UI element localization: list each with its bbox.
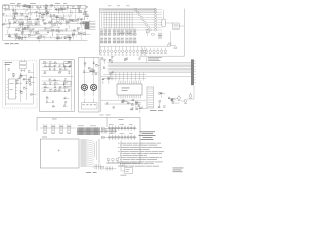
IC U21 <box>64 68 68 70</box>
capacitor C77 input <box>102 136 105 138</box>
IC U4 <box>77 18 79 24</box>
capacitor C69 <box>168 97 170 99</box>
resistor R50 <box>68 37 71 39</box>
IC U23 <box>54 89 58 91</box>
capacitor C61 <box>111 61 113 63</box>
resistor R30 <box>44 22 47 24</box>
transistor Q35 segment buffer <box>154 24 162 26</box>
wire G band tail <box>101 129 118 134</box>
resistor R37 <box>53 23 56 25</box>
capacitor C49 <box>49 83 51 85</box>
option board dashed outline <box>3 61 37 108</box>
resistor R89 <box>90 70 93 72</box>
text G labels <box>52 115 111 120</box>
diode CR7 <box>32 28 34 33</box>
IC U3 <box>46 11 48 16</box>
diode CR40 cluster <box>168 43 177 49</box>
IC U10 <box>28 34 35 36</box>
text B title <box>120 32 132 35</box>
resistor R88 <box>84 62 87 67</box>
resistor R67 <box>29 76 36 78</box>
capacitor C7 <box>45 7 47 9</box>
transistor Q29 segment buffer <box>154 16 162 18</box>
transistor Q9 digit driver <box>100 46 102 55</box>
resistor R104 <box>121 101 124 103</box>
capacitor C42 <box>18 77 20 79</box>
transistor Q1 <box>78 8 80 13</box>
resistor R105 <box>158 100 161 107</box>
capacitor C1 <box>67 6 69 11</box>
resistor R41 <box>59 22 62 24</box>
diode CR12 <box>79 32 81 34</box>
capacitor C14 <box>85 11 87 13</box>
resistor R15 <box>70 19 76 21</box>
resistor R46 <box>15 33 18 35</box>
diode CR13 <box>28 71 33 73</box>
IC U30 regulator <box>7 79 17 99</box>
resistor network R58 <box>117 29 120 36</box>
capacitor C68 <box>171 99 173 104</box>
IC U12 <box>16 36 18 38</box>
resistor R9 <box>54 8 60 10</box>
capacitor C66 <box>136 102 139 104</box>
resistor R18 <box>60 17 67 19</box>
transistor Q60 group <box>141 48 166 54</box>
transistor Q37 segment buffer <box>154 26 162 28</box>
text F caption <box>150 109 163 112</box>
transistor Q4 <box>65 21 67 26</box>
resistor R63 <box>16 82 22 84</box>
resistor network R61 <box>130 29 133 36</box>
resistor R16 <box>49 14 55 16</box>
capacitor C59 <box>93 62 95 64</box>
transistor Q71 <box>181 100 187 104</box>
capacitor C71 <box>172 102 179 104</box>
IC U24 <box>46 97 48 99</box>
resistor R81 <box>58 86 61 88</box>
capacitor C44 <box>8 69 10 71</box>
diode CR1 <box>86 6 88 8</box>
diode CR21 <box>109 59 112 61</box>
filter stage rows upper <box>42 64 71 71</box>
edge connector P3 <box>191 59 196 85</box>
resistor network R60 <box>126 29 129 36</box>
wire toroid leads <box>84 80 93 97</box>
transistor Q32 segment driver <box>103 21 154 23</box>
capacitor C33 <box>108 37 111 43</box>
resistor network R57 <box>113 29 116 36</box>
resistor R75 <box>68 65 71 67</box>
transistor Q70 <box>178 95 181 100</box>
capacitor C72 filter group <box>43 124 47 134</box>
capacitor C56 <box>52 101 54 103</box>
transistor Q17 digit driver <box>129 46 131 55</box>
diode CR17 <box>54 82 59 84</box>
resistor R36 <box>55 29 63 31</box>
main board top border <box>37 117 140 131</box>
capacitor C54 <box>64 90 66 92</box>
resistor R20 <box>38 12 41 19</box>
transistor Q24 segment driver <box>103 11 154 13</box>
capacitor C75 filter group <box>67 124 71 134</box>
resistor R70 <box>16 79 19 81</box>
IC U2 <box>78 5 81 11</box>
resistor network R62 <box>134 29 137 36</box>
resistor R24 <box>56 16 59 18</box>
resistor network R56 <box>108 29 111 36</box>
capacitor C60 <box>103 59 106 63</box>
resistor pack RP2 <box>173 23 185 29</box>
edge connector J4 hatch band <box>77 126 117 135</box>
resistor R26 <box>46 12 49 14</box>
resistor R12 <box>85 15 88 17</box>
capacitor C64 <box>135 103 137 109</box>
wire B bottom border <box>140 55 185 57</box>
transistor Q12 digit driver <box>111 46 113 55</box>
wire A left rail <box>2 6 4 41</box>
capacitor C3 <box>72 7 78 9</box>
wire G top rail <box>40 127 76 129</box>
IC U16 <box>21 91 23 93</box>
diode CR18 <box>68 89 71 91</box>
resistor R38 <box>26 26 29 31</box>
text B bus labels <box>108 5 130 8</box>
transistor Q7 <box>35 32 40 35</box>
capacitor C21 <box>22 28 25 34</box>
rectifier CR60 bridge <box>118 163 133 173</box>
resistor R71 <box>68 61 71 63</box>
capacitor C8 <box>44 6 47 8</box>
resistor R102 <box>137 105 140 107</box>
transistor Q39 segment buffer <box>154 29 162 31</box>
resistor R25 <box>55 16 62 18</box>
resistor R150 hatch <box>105 166 117 170</box>
resistor network R54 <box>101 29 104 36</box>
diode CR26 rectifier row <box>101 133 137 140</box>
resistor R34 <box>67 21 70 23</box>
capacitor C31 <box>101 37 104 43</box>
capacitor C48 <box>64 79 67 81</box>
capacitor C9 <box>37 18 40 20</box>
wire B cascade feed <box>170 31 172 46</box>
resistor R95 <box>103 67 106 69</box>
resistor R23 <box>79 11 82 13</box>
IC U28 <box>131 104 133 106</box>
text F notes <box>148 57 162 61</box>
resistor R98 <box>131 99 134 101</box>
resistor R42 <box>48 21 51 23</box>
resistor R92 <box>101 57 104 59</box>
IC U19 <box>44 61 48 63</box>
transistor Q40 <box>49 61 54 64</box>
capacitor C37 <box>126 37 129 43</box>
wire A vertical drops <box>6 7 76 41</box>
filter board outline <box>40 59 74 111</box>
resistor R85 <box>52 105 55 107</box>
capacitor C11 <box>80 18 83 20</box>
resistor R43 <box>56 21 59 26</box>
text H label <box>119 118 124 121</box>
transistor Q33 segment buffer <box>154 21 162 23</box>
wire A bottom rail <box>3 40 88 42</box>
resistor R21 <box>86 15 89 20</box>
transistor Q10 digit driver <box>103 46 105 55</box>
resistor R4 <box>28 6 33 8</box>
wire F below-IC rails <box>101 100 146 104</box>
IC U17 <box>29 81 35 83</box>
IC U29 <box>159 92 165 94</box>
resistor R69 <box>30 93 36 95</box>
resistor R22 <box>41 13 48 15</box>
diode CR10 <box>8 34 10 36</box>
IC U31 <box>62 62 71 67</box>
wire B left border <box>99 8 101 55</box>
wire C inner runs <box>21 73 27 103</box>
IC U9 <box>72 33 74 39</box>
capacitor C26 <box>15 35 17 41</box>
resistor R33 <box>80 22 83 28</box>
transistor Q5 <box>18 28 21 31</box>
IC U13 <box>19 36 24 38</box>
capacitor C58 <box>88 67 94 69</box>
capacitor C16 <box>2 13 5 15</box>
resistor R77 <box>58 71 61 73</box>
transistor Q38 segment driver <box>103 29 154 31</box>
resistor R66 <box>22 78 29 80</box>
wire A top rail ticks <box>6 5 85 8</box>
capacitor C65 <box>141 107 147 109</box>
capacitor C28 <box>47 31 49 33</box>
resistor R45 <box>36 31 39 33</box>
resistor R51 <box>64 37 67 39</box>
diode CR25 rectifier row <box>101 124 137 131</box>
capacitor C53 <box>58 89 62 91</box>
capacitor C47 <box>68 72 70 74</box>
resistor R5 <box>45 4 48 8</box>
diode CR3 <box>56 8 58 10</box>
resistor network R55 <box>105 29 108 36</box>
capacitor C23 <box>19 23 21 28</box>
capacitor C24 <box>83 33 90 35</box>
toroid L2 <box>90 84 96 90</box>
transistor Q15 digit driver <box>122 46 124 55</box>
resistor R13 <box>41 16 44 18</box>
text A sheet caption <box>5 42 19 45</box>
IC U6 <box>77 27 80 34</box>
IC U7 <box>24 27 30 29</box>
toroid L1 <box>81 84 87 90</box>
resistor R2 <box>36 6 42 8</box>
diode CR11 <box>24 36 26 41</box>
transformer T2 <box>20 60 26 72</box>
wire D rails <box>41 60 73 110</box>
text notes list <box>118 143 164 167</box>
IC U20 <box>54 62 56 64</box>
diode CR15 <box>49 68 51 70</box>
capacitor C39 <box>134 37 137 43</box>
diode CR14 <box>59 65 61 67</box>
resistor R72 <box>44 65 50 67</box>
resistor R87 array <box>158 33 162 39</box>
resistor R100 <box>138 107 141 113</box>
transistor Q43 <box>109 59 111 62</box>
IC U25 <box>93 70 96 72</box>
resistor R94 <box>108 78 111 84</box>
resistor R1 <box>23 5 26 10</box>
capacitor C17 <box>83 22 85 24</box>
capacitor C80 pair <box>145 29 154 36</box>
wire ribbon verticals <box>94 139 99 163</box>
transistor Q6 <box>66 28 68 31</box>
resistor R79 <box>43 83 47 85</box>
transistor Q3 <box>13 13 16 18</box>
resistor bank RA hatch clusters <box>18 19 41 25</box>
capacitor C32 <box>105 37 108 43</box>
resistor R39 <box>73 29 76 36</box>
transistor Q14 digit driver <box>118 46 120 55</box>
resistor R19 <box>71 20 77 22</box>
capacitor C15 <box>35 11 37 17</box>
resistor R27 <box>25 15 28 17</box>
filter stage rows lower <box>42 81 71 92</box>
wire F data bus <box>108 63 192 73</box>
IC U5 <box>16 12 18 14</box>
transistor Q20 digit driver <box>140 46 142 55</box>
resistor R64 <box>20 75 23 77</box>
transistor Q22 segment driver <box>103 9 154 11</box>
resistor R90 <box>91 69 94 75</box>
resistor R3 <box>26 5 29 10</box>
wire F long run <box>101 75 191 79</box>
resistor R49 <box>67 36 70 38</box>
wire C rails <box>6 63 34 106</box>
IC U11 <box>21 31 24 38</box>
capacitor C29 <box>21 37 24 39</box>
IC U22 <box>63 83 66 85</box>
diode CR19 <box>89 70 93 72</box>
resistor R107 <box>158 106 161 108</box>
wire F left rail <box>101 57 147 112</box>
resistor R17 <box>83 13 86 20</box>
transistor Q41 <box>49 79 53 82</box>
capacitor C67 <box>127 102 133 104</box>
diode CR5 <box>29 17 31 19</box>
resistor R44 <box>57 37 62 39</box>
diode CR20 <box>139 58 141 60</box>
resistor R106 <box>160 92 163 98</box>
capacitor C38 <box>130 37 133 43</box>
capacitor C22 <box>82 21 84 26</box>
wire H supply feed <box>120 140 122 163</box>
transistor Q31 segment buffer <box>154 19 162 21</box>
capacitor C51 <box>44 89 47 91</box>
diode CR16 <box>59 68 63 70</box>
resistor R6 <box>63 8 66 10</box>
capacitor C57 <box>83 71 89 73</box>
resistor R65 <box>29 83 32 85</box>
transistor Q42 <box>111 56 114 59</box>
resistor R97 <box>112 106 115 108</box>
capacitor C46 <box>53 68 55 70</box>
capacitor C18 <box>35 23 37 25</box>
transistor Q13 digit driver <box>114 46 116 55</box>
diode CR24 <box>163 106 166 108</box>
wire A top rail <box>4 4 87 6</box>
resistor R40 <box>51 29 54 35</box>
regulator VR1 cluster <box>106 159 121 163</box>
transistor Q44 <box>132 108 134 111</box>
resistor R96 <box>102 78 105 84</box>
diode CR8 <box>9 22 11 28</box>
transistor Q8 <box>18 37 23 40</box>
capacitor C52 <box>49 89 54 91</box>
resistor R74 <box>63 65 67 67</box>
wire A fine ticks <box>6 6 85 40</box>
diode CR22 <box>135 101 141 103</box>
capacitor C41 <box>26 82 28 84</box>
resistor R53 <box>69 36 72 42</box>
transistor Q30 segment driver <box>103 19 154 21</box>
IC U14 <box>23 87 27 89</box>
capacitor C12 <box>43 13 46 15</box>
resistor R91 <box>125 58 128 60</box>
text A top annotations <box>10 2 67 5</box>
resistor R8 <box>24 5 32 7</box>
transistor Q27 segment buffer <box>154 14 162 16</box>
text H caption <box>121 174 127 177</box>
connector J1 shaded <box>85 20 96 30</box>
wire B top bus <box>100 8 157 12</box>
capacitor C76 input <box>102 127 105 129</box>
resistor pack RP1 ladder <box>147 87 154 108</box>
capacitor C27 <box>40 35 46 37</box>
resistor R31 <box>14 21 17 23</box>
capacitor C73 filter group <box>51 124 55 134</box>
diode CR6 <box>22 22 24 24</box>
resistor R11 <box>61 8 64 13</box>
transistor Q2 <box>69 19 71 22</box>
capacitor C4 <box>84 10 86 12</box>
text revision stamp <box>173 168 184 172</box>
wire B row rail <box>100 45 169 47</box>
capacitor C13 <box>53 14 55 19</box>
diode CR23 <box>122 100 129 102</box>
transistor Q45 <box>106 102 108 105</box>
transistor Q28 segment driver <box>103 16 154 18</box>
capacitor C10 <box>42 19 44 25</box>
capacitor C36 <box>121 37 124 43</box>
resistor R76 <box>43 72 46 74</box>
resistor R78 <box>53 79 59 81</box>
capacitor C30 <box>64 36 66 38</box>
capacitor C70 <box>171 99 173 101</box>
diode CR2 <box>17 5 20 7</box>
transistor Q36 segment driver <box>103 26 154 28</box>
transistor Q18 digit driver <box>133 46 135 55</box>
transistor Q26 segment driver <box>103 14 154 16</box>
capacitor C40 <box>19 90 21 92</box>
microprocessor U40 <box>117 81 142 99</box>
resistor R87 <box>94 73 97 75</box>
capacitor C62 <box>107 77 114 79</box>
resistor R10 <box>50 4 53 6</box>
resistor R68 <box>19 74 26 76</box>
wire B right border <box>183 9 185 57</box>
resistor R47 <box>8 35 11 37</box>
resistor R84 <box>64 101 67 103</box>
capacitor C2 <box>4 8 9 10</box>
terminal block TB1 <box>81 99 97 110</box>
